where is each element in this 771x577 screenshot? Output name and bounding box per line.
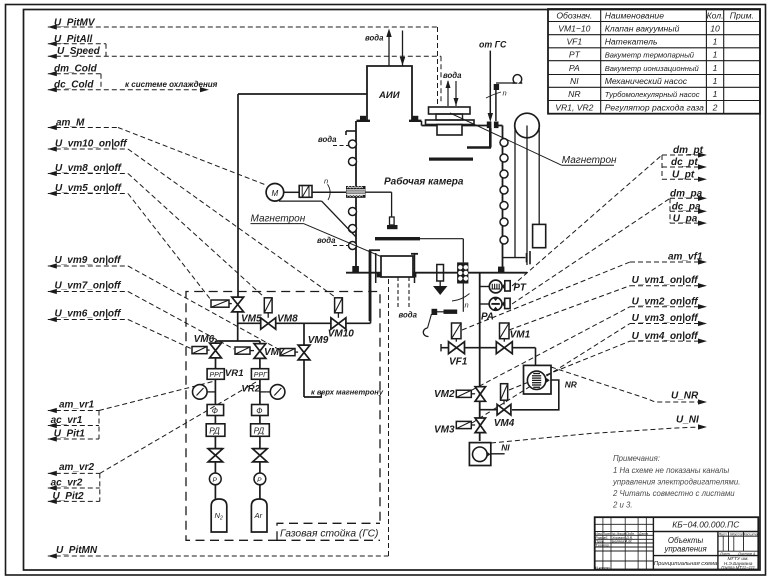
svg-text:Регулятор расхода газа: Регулятор расхода газа xyxy=(605,102,704,112)
rotation arc n at shutter xyxy=(452,294,470,302)
svg-text:РД: РД xyxy=(209,427,220,436)
wire gas feed from GS pipe xyxy=(489,51,491,115)
lower magnetron flange bolts xyxy=(377,273,381,277)
svg-text:Масштаб: Масштаб xyxy=(742,532,761,536)
svg-text:U_vm2_on|off: U_vm2_on|off xyxy=(632,297,700,308)
filter box F left xyxy=(207,405,224,416)
svg-text:U_vm8_on|off: U_vm8_on|off xyxy=(55,163,123,174)
chamber bottom line xyxy=(346,272,527,274)
wire U_vm9 leader xyxy=(48,265,128,267)
wire F to RD left xyxy=(214,416,216,424)
probe wire from feedthrough xyxy=(365,191,391,193)
substrate holder body xyxy=(437,125,462,136)
motor feedthrough hatched xyxy=(346,186,366,198)
svg-text:РД: РД xyxy=(254,427,265,436)
svg-text:VF1: VF1 xyxy=(449,357,468,368)
svg-text:NR: NR xyxy=(565,380,577,390)
wire to lamp symbol xyxy=(496,82,517,84)
svg-text:U_Pit1: U_Pit1 xyxy=(54,429,86,440)
wire vr1 bracket and leader to VR1 xyxy=(98,411,100,440)
svg-text:Механический насос: Механический насос xyxy=(605,76,688,86)
wire junction to VM4 xyxy=(480,409,497,411)
actuator VM3 xyxy=(456,421,471,428)
svg-text:РРГ: РРГ xyxy=(254,372,268,379)
svg-text:VR1, VR2: VR1, VR2 xyxy=(555,102,593,112)
wire gas manifold VM8 line xyxy=(237,312,239,341)
svg-text:U_vm4_on|off: U_vm4_on|off xyxy=(632,331,700,342)
svg-text:вода: вода xyxy=(443,71,462,80)
gas cylinder N2 xyxy=(211,499,227,532)
exhaust down arrow xyxy=(439,281,441,286)
svg-text:NI: NI xyxy=(570,76,579,86)
svg-text:PT: PT xyxy=(569,49,581,59)
wire VF1 inlet xyxy=(441,347,449,349)
svg-text:Принципиальная схема: Принципиальная схема xyxy=(654,561,718,567)
svg-text:1: 1 xyxy=(713,63,718,73)
svg-text:Газовая стойка (ГС): Газовая стойка (ГС) xyxy=(280,529,378,540)
wire to P gauge right xyxy=(259,462,261,473)
substrate holder spacer xyxy=(436,114,463,120)
wire NI outlet xyxy=(491,453,505,455)
AII left flange xyxy=(357,120,371,122)
wire U_vm1 leader xyxy=(509,286,630,330)
wire am_M leader to motor xyxy=(48,127,118,129)
lower magnetron cap xyxy=(369,249,380,251)
wire to cylinder right xyxy=(259,485,261,499)
svg-text:U_vm9_on|off: U_vm9_on|off xyxy=(55,255,123,266)
wire VM9 riser xyxy=(303,323,305,345)
svg-text:вода: вода xyxy=(365,34,384,43)
hand valve right xyxy=(253,448,268,450)
svg-text:U_NR: U_NR xyxy=(671,391,699,402)
wire target bar to rotary feedthrough xyxy=(420,238,463,240)
gas stand dashed boundary xyxy=(186,292,380,541)
svg-text:VR2: VR2 xyxy=(241,384,260,395)
probe symbol xyxy=(390,217,395,225)
svg-text:Р: Р xyxy=(257,477,262,484)
svg-text:вода: вода xyxy=(318,135,337,144)
wire VR1 down xyxy=(214,379,216,404)
svg-text:U_pt: U_pt xyxy=(672,170,695,181)
svg-text:1: 1 xyxy=(713,76,718,86)
title block right cells xyxy=(718,535,758,537)
svg-text:U_NI: U_NI xyxy=(676,415,699,426)
lower magnetron feed bar xyxy=(369,250,372,321)
svg-text:NI: NI xyxy=(501,443,510,453)
svg-text:Обознач.: Обознач. xyxy=(556,10,592,20)
lower magnetron left bracket xyxy=(375,253,377,283)
svg-text:управления электродвигателями: управления электродвигателями. xyxy=(612,478,740,487)
svg-text:вода: вода xyxy=(399,311,418,320)
svg-text:Беляев А.М.: Беляев А.М. xyxy=(612,540,632,544)
magnetron drive rod xyxy=(495,84,497,121)
actuator VM10 xyxy=(335,298,343,313)
svg-text:VM9: VM9 xyxy=(308,335,329,346)
wire VM9 to upper magnetron xyxy=(303,360,305,397)
gas stand label box xyxy=(277,523,380,540)
water dashed lines under magnetron xyxy=(397,277,399,308)
wire NR foreline xyxy=(512,380,559,410)
svg-text:2 и 3.: 2 и 3. xyxy=(612,501,633,510)
svg-text:dc_pt: dc_pt xyxy=(671,157,698,168)
svg-text:PA: PA xyxy=(569,63,580,73)
svg-text:Кол.: Кол. xyxy=(707,10,724,20)
wire VM10 riser to lower magnetron xyxy=(370,289,372,323)
svg-text:VM4: VM4 xyxy=(494,418,515,429)
svg-text:VM8: VM8 xyxy=(277,314,298,325)
actuator VM1 xyxy=(500,323,510,339)
chamber right wall ports xyxy=(500,139,508,147)
svg-text:Турбомолекулярный насос: Турбомолекулярный насос xyxy=(605,90,700,99)
chamber bottom left flange bolt xyxy=(352,266,359,272)
vacuum gauge PT xyxy=(489,280,502,293)
chamber left wall ports xyxy=(349,140,357,148)
svg-text:вода: вода xyxy=(317,236,336,245)
svg-text:PT: PT xyxy=(513,283,527,294)
svg-text:Прим.: Прим. xyxy=(730,10,754,20)
svg-text:Р: Р xyxy=(213,477,218,484)
svg-text:АИИ: АИИ xyxy=(378,90,400,101)
turbo pump NR box xyxy=(524,365,552,394)
wire vr2 bracket and leader to VR2 xyxy=(99,473,101,501)
svg-text:Магнетрон: Магнетрон xyxy=(562,155,617,166)
svg-text:Вакуметр ионизационный: Вакуметр ионизационный xyxy=(605,64,700,73)
chamber left wall xyxy=(355,121,357,267)
svg-text:Наименование: Наименование xyxy=(605,10,665,20)
gas shower pipe inside chamber xyxy=(489,128,492,148)
svg-text:U_vm10_on|off: U_vm10_on|off xyxy=(55,139,128,150)
wire VR2 down xyxy=(259,379,261,404)
svg-text:Рабочая камера: Рабочая камера xyxy=(384,176,464,188)
svg-text:управления: управления xyxy=(663,544,707,553)
wire am_vf1 leader to VF1 xyxy=(462,262,630,330)
svg-text:Масса: Масса xyxy=(730,531,743,536)
chamber top-left lip xyxy=(346,130,356,132)
actuator VM6 xyxy=(192,347,207,354)
svg-text:M: M xyxy=(272,189,279,198)
svg-text:Клапан вакуумный: Клапан вакуумный xyxy=(605,23,680,33)
mechanical pump NI box xyxy=(469,443,490,466)
svg-text:РРГ: РРГ xyxy=(210,372,224,379)
svg-text:Дата: Дата xyxy=(638,532,648,536)
chamber entry flange bolts xyxy=(487,122,492,129)
parts table xyxy=(548,9,760,114)
coupling box xyxy=(299,186,312,198)
actuator VM8 xyxy=(264,298,272,313)
svg-text:Ф: Ф xyxy=(212,406,218,415)
wire U_vm7 leader xyxy=(48,291,128,293)
water line down above AII xyxy=(402,31,404,66)
wire VM7 to VR2 xyxy=(259,359,261,369)
svg-text:U_PitMN: U_PitMN xyxy=(56,545,98,556)
water arrow up above AII xyxy=(388,32,390,66)
wire U_PitMN dashed route to lower magnetron xyxy=(48,555,389,557)
svg-text:dc_pa: dc_pa xyxy=(672,201,701,212)
svg-text:dc_Cold: dc_Cold xyxy=(54,80,94,91)
chamber top plate right of AII xyxy=(421,121,423,126)
svg-text:VR1: VR1 xyxy=(225,368,244,379)
wire to P gauge left xyxy=(214,462,216,473)
wire F to RD right xyxy=(259,416,261,424)
valve VM4 xyxy=(497,404,511,415)
svg-text:Ф: Ф xyxy=(256,406,262,415)
pressure reducer RD right xyxy=(251,424,270,437)
svg-text:U_Pit2: U_Pit2 xyxy=(53,491,85,502)
pulley circle xyxy=(515,113,540,138)
rotation arc n at gas inlet xyxy=(486,92,501,98)
title block left grid xyxy=(595,523,654,525)
pressure reducer RD left xyxy=(206,424,225,437)
valve VF1 leak xyxy=(449,342,465,354)
svg-text:am_vr1: am_vr1 xyxy=(59,400,94,411)
counterweight box xyxy=(533,224,546,247)
AII right flange bolt xyxy=(412,116,418,121)
substrate holder top plate xyxy=(429,107,471,114)
svg-text:КБ−04.00.000.ПС: КБ−04.00.000.ПС xyxy=(672,519,740,529)
valve VM7 xyxy=(254,344,266,359)
svg-text:Группа МТ11−111: Группа МТ11−111 xyxy=(721,565,755,570)
filter box F right xyxy=(252,405,269,416)
svg-text:VM2: VM2 xyxy=(434,389,455,400)
motor base line xyxy=(279,200,322,202)
chamber bottom right flange bolt xyxy=(498,267,504,273)
svg-text:n: n xyxy=(324,177,328,186)
svg-text:к системе охлаждения: к системе охлаждения xyxy=(125,80,218,89)
valve VM10 xyxy=(331,318,346,329)
gas cylinder Ar xyxy=(251,499,267,532)
svg-text:am_vr2: am_vr2 xyxy=(59,462,94,473)
wire U_vm5 leader xyxy=(48,193,128,195)
wire U_Speed dashed route xyxy=(48,55,441,57)
wire U_vm3 leader xyxy=(472,324,630,424)
svg-text:VM3: VM3 xyxy=(434,425,455,436)
svg-text:n: n xyxy=(503,89,507,98)
wire RD to hand valve left xyxy=(214,436,216,448)
flow regulator VR2 xyxy=(251,369,268,380)
svg-text:к верх магнетрону: к верх магнетрону xyxy=(311,388,384,397)
wire U_PitAll dashed route xyxy=(48,43,106,45)
valve VM1 xyxy=(496,342,512,354)
svg-text:Примечания:: Примечания: xyxy=(613,454,660,463)
wire gas pipe VM5 to AII ion source xyxy=(237,94,239,297)
svg-text:U_Speed: U_Speed xyxy=(57,46,101,57)
pulley right rope xyxy=(538,128,540,224)
substrate holder wide plate xyxy=(426,120,475,125)
svg-text:U_vm6_on|off: U_vm6_on|off xyxy=(55,309,123,320)
mechanical pump NI rotor xyxy=(473,447,488,462)
damper bars xyxy=(526,253,528,262)
rotary feedthrough 6-circle xyxy=(457,262,468,283)
valve VM8 xyxy=(261,318,276,329)
svg-text:1: 1 xyxy=(713,36,718,46)
water arrows at substrate holder xyxy=(447,81,449,106)
svg-text:от ГС: от ГС xyxy=(479,40,507,50)
svg-text:PA: PA xyxy=(481,312,494,323)
actuator VM4 xyxy=(501,384,508,401)
valve VM2 xyxy=(475,387,485,402)
damper horizontal line xyxy=(503,257,526,259)
AII right flange xyxy=(409,120,422,122)
wire to cylinder left xyxy=(214,485,216,499)
P gauge left xyxy=(209,473,221,485)
svg-text:VM1−10: VM1−10 xyxy=(558,23,590,33)
wire VF1 to VM1 xyxy=(465,347,497,349)
svg-text:Вакуметр термопарный: Вакуметр термопарный xyxy=(605,50,695,59)
turbo pump NR rotor xyxy=(527,371,545,389)
svg-text:10: 10 xyxy=(710,23,720,33)
wire U_vm2 leader xyxy=(472,307,630,390)
svg-text:VM6: VM6 xyxy=(194,334,215,345)
svg-text:2 Читать совместно с листа: 2 Читать совместно с листами xyxy=(612,489,735,498)
actuator VM7 xyxy=(235,347,250,354)
actuator VM9 xyxy=(280,349,295,356)
svg-text:Т.контр.: Т.контр. xyxy=(595,544,610,548)
exhaust port rect xyxy=(437,265,444,282)
wire U_vm4 leader xyxy=(509,341,630,390)
wire U_vm10 leader xyxy=(48,148,128,150)
wire dc_Cold dashed route to cooling system xyxy=(48,89,201,91)
svg-text:Ar: Ar xyxy=(254,511,263,520)
svg-text:Лит.: Лит. xyxy=(717,531,727,536)
valve VM6 xyxy=(210,343,222,358)
AII left flange bolt xyxy=(360,116,366,121)
wire main pump line xyxy=(479,273,481,441)
svg-text:1: 1 xyxy=(713,89,718,99)
svg-text:U_vm5_on|off: U_vm5_on|off xyxy=(55,183,123,194)
svg-text:VM1: VM1 xyxy=(510,330,531,341)
actuator VM2 xyxy=(456,390,471,397)
lower magnetron right bracket xyxy=(414,253,416,283)
svg-text:NR: NR xyxy=(568,89,580,99)
wire U_vm8 leader xyxy=(48,173,128,175)
flow regulator VR1 xyxy=(207,369,224,380)
lamp symbol omega xyxy=(513,75,523,83)
svg-text:Лист: Лист xyxy=(719,552,730,556)
wire manifold VM6 VM7 xyxy=(216,340,260,342)
wire motor shaft xyxy=(284,191,299,193)
shutter hook xyxy=(428,314,432,328)
svg-text:Листов 4: Листов 4 xyxy=(737,552,755,556)
wire VM6 to VR1 xyxy=(215,358,217,369)
valve VM5 xyxy=(232,297,244,312)
svg-text:VF1: VF1 xyxy=(566,36,582,46)
anode bar inside chamber xyxy=(429,158,473,161)
shutter pivot line xyxy=(462,282,464,312)
valve VM9 xyxy=(298,345,310,360)
svg-text:U_pa: U_pa xyxy=(673,213,698,224)
lower magnetron body xyxy=(381,256,413,277)
chamber right wall xyxy=(502,126,504,268)
P gauge right xyxy=(254,473,266,485)
svg-text:VM10: VM10 xyxy=(328,329,355,340)
svg-text:1: 1 xyxy=(713,49,718,59)
motor shaft diagonal into chamber xyxy=(322,201,356,237)
svg-text:am_vf1: am_vf1 xyxy=(668,252,703,263)
valve VM3 xyxy=(475,418,485,433)
title block xyxy=(595,517,759,569)
svg-text:dm_Cold: dm_Cold xyxy=(54,64,98,75)
AII ion source box xyxy=(367,66,412,121)
pressure gauge right xyxy=(270,385,285,400)
motor M xyxy=(266,184,284,202)
wire RD to hand valve right xyxy=(259,436,261,448)
rotation arc n at motor xyxy=(328,184,331,200)
hand valve left xyxy=(208,448,223,450)
wire pa bracket and leader to PA xyxy=(669,198,671,223)
magnetron drive connector square xyxy=(494,84,499,90)
wire dm_Cold dashed route xyxy=(48,73,101,75)
svg-text:Магнетрон: Магнетрон xyxy=(251,214,306,225)
svg-text:1 На схеме не показаны ка: 1 На схеме не показаны каналы xyxy=(613,466,730,475)
svg-text:Натекатель: Натекатель xyxy=(605,36,658,46)
svg-text:am_M: am_M xyxy=(56,118,85,129)
wire VM1 to NR riser xyxy=(512,347,535,349)
pulley axle line xyxy=(526,126,528,266)
wire PA branch xyxy=(480,303,490,305)
shutter bar xyxy=(444,310,458,314)
svg-text:U_vm3_on|off: U_vm3_on|off xyxy=(632,313,700,324)
actuator VF1 xyxy=(452,323,462,339)
svg-text:n: n xyxy=(465,301,469,310)
svg-text:U_vm1_on|off: U_vm1_on|off xyxy=(632,275,700,286)
wire coupling to feedthrough xyxy=(312,191,346,193)
svg-text:U_vm7_on|off: U_vm7_on|off xyxy=(55,281,123,292)
substrate target bar xyxy=(375,237,420,240)
svg-text:Н.контр.: Н.контр. xyxy=(595,566,610,570)
svg-text:2: 2 xyxy=(712,102,718,112)
shutter square xyxy=(432,309,438,315)
vacuum gauge PA xyxy=(489,298,502,311)
pressure gauge left xyxy=(193,385,208,400)
wire U_PitMV dashed route xyxy=(48,26,438,28)
actuator VM5 xyxy=(211,300,229,307)
wire PT branch xyxy=(480,286,489,288)
pulley left rope xyxy=(514,128,516,258)
wire pt bracket and leader to PT xyxy=(661,155,663,179)
wire U_vm6 leader xyxy=(48,319,128,321)
